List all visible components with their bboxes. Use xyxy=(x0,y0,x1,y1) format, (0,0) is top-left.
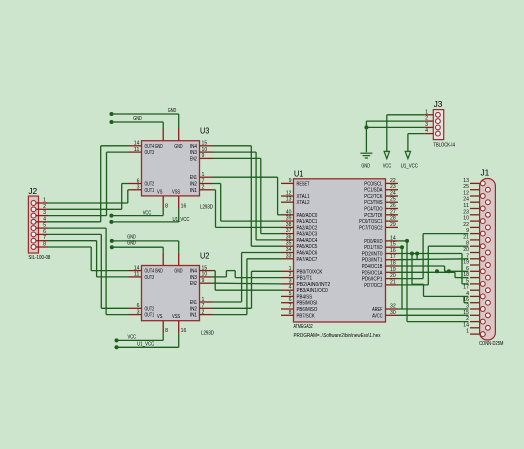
svg-text:OUT2: OUT2 xyxy=(145,306,155,312)
svg-text:21: 21 xyxy=(463,234,469,240)
svg-text:3: 3 xyxy=(43,210,46,216)
svg-text:23: 23 xyxy=(390,184,396,190)
svg-text:GND: GND xyxy=(174,269,182,275)
svg-text:J2: J2 xyxy=(28,187,37,196)
svg-text:PB1/T1: PB1/T1 xyxy=(297,276,313,282)
svg-text:EN2: EN2 xyxy=(190,156,197,162)
svg-text:5: 5 xyxy=(43,223,46,229)
svg-text:OUT3: OUT3 xyxy=(145,150,155,156)
svg-text:8: 8 xyxy=(43,242,46,248)
svg-text:6: 6 xyxy=(137,303,140,309)
svg-text:11: 11 xyxy=(134,147,140,153)
svg-text:OUT4: OUT4 xyxy=(145,269,155,275)
svg-text:IN1: IN1 xyxy=(190,313,197,319)
svg-text:U2: U2 xyxy=(200,251,210,260)
svg-text:11: 11 xyxy=(134,272,140,278)
svg-text:ATMEGA32: ATMEGA32 xyxy=(294,324,313,330)
svg-text:PB7/SCK: PB7/SCK xyxy=(297,313,316,319)
svg-text:1: 1 xyxy=(43,198,46,204)
svg-text:VS: VS xyxy=(157,314,163,320)
svg-text:AVCC: AVCC xyxy=(372,313,383,319)
svg-text:39: 39 xyxy=(286,216,292,222)
svg-text:7: 7 xyxy=(202,178,205,184)
svg-text:15: 15 xyxy=(202,265,208,271)
svg-text:PA5/ADC5: PA5/ADC5 xyxy=(297,244,318,250)
svg-text:OUT1: OUT1 xyxy=(145,313,155,319)
svg-text:PC5/TDI: PC5/TDI xyxy=(364,213,382,219)
svg-text:PA4/ADC4: PA4/ADC4 xyxy=(297,238,318,244)
svg-text:VCC: VCC xyxy=(383,164,392,170)
svg-text:U1_VCC: U1_VCC xyxy=(137,342,154,348)
svg-text:4: 4 xyxy=(425,128,428,134)
svg-text:19: 19 xyxy=(463,260,469,266)
svg-text:1: 1 xyxy=(425,109,428,115)
svg-text:12: 12 xyxy=(286,191,292,197)
svg-text:PD6/ICP1: PD6/ICP1 xyxy=(362,277,383,283)
svg-text:6: 6 xyxy=(43,229,46,235)
svg-text:PC2/TCK: PC2/TCK xyxy=(364,194,383,200)
svg-text:9: 9 xyxy=(202,153,205,159)
svg-text:EN1: EN1 xyxy=(190,300,197,306)
svg-text:5: 5 xyxy=(289,291,292,297)
svg-text:PD3/INT1: PD3/INT1 xyxy=(362,258,383,264)
svg-text:13: 13 xyxy=(463,178,469,184)
svg-text:14: 14 xyxy=(134,141,140,147)
svg-text:VSS: VSS xyxy=(172,314,181,320)
svg-text:VSS: VSS xyxy=(172,189,181,195)
svg-text:3: 3 xyxy=(137,309,140,315)
svg-text:GND: GND xyxy=(168,108,177,114)
svg-text:EN1: EN1 xyxy=(190,175,197,181)
svg-text:IN3: IN3 xyxy=(190,275,197,281)
svg-text:10: 10 xyxy=(202,272,208,278)
svg-text:38: 38 xyxy=(286,222,292,228)
svg-text:OUT3: OUT3 xyxy=(145,275,155,281)
svg-text:1: 1 xyxy=(289,266,292,272)
svg-text:22: 22 xyxy=(463,222,469,228)
svg-text:16: 16 xyxy=(181,203,187,209)
svg-text:U1_VCC: U1_VCC xyxy=(172,217,189,223)
svg-text:9: 9 xyxy=(289,178,292,184)
svg-text:1: 1 xyxy=(202,297,205,303)
svg-text:15: 15 xyxy=(390,242,396,248)
svg-text:PA2/ADC2: PA2/ADC2 xyxy=(297,225,318,231)
svg-text:24: 24 xyxy=(390,191,396,197)
svg-text:PD4/OC1B: PD4/OC1B xyxy=(362,264,383,270)
svg-text:PA3/ADC3: PA3/ADC3 xyxy=(297,232,318,238)
svg-text:PD7/OC2: PD7/OC2 xyxy=(364,283,382,289)
svg-text:14: 14 xyxy=(134,265,140,271)
svg-text:IN1: IN1 xyxy=(190,188,197,194)
svg-text:J3: J3 xyxy=(434,100,443,109)
svg-text:3: 3 xyxy=(137,185,140,191)
svg-text:XTAL2: XTAL2 xyxy=(297,200,310,206)
svg-text:1: 1 xyxy=(466,329,469,335)
svg-text:4: 4 xyxy=(43,216,46,222)
svg-text:40: 40 xyxy=(286,209,292,215)
svg-text:PROGRAM=..\Software2\bin\newEs: PROGRAM=..\Software2\bin\newEss\1.hex xyxy=(294,333,381,339)
svg-text:PD0/RXD: PD0/RXD xyxy=(364,239,383,245)
svg-text:33: 33 xyxy=(286,253,292,259)
svg-text:PB6/MISO: PB6/MISO xyxy=(297,307,318,313)
svg-text:6: 6 xyxy=(137,178,140,184)
svg-text:PC4/TDO: PC4/TDO xyxy=(364,207,382,213)
svg-text:PC0/SCL: PC0/SCL xyxy=(364,181,382,187)
svg-text:PA0/ADC0: PA0/ADC0 xyxy=(297,213,318,219)
svg-text:2: 2 xyxy=(43,204,46,210)
svg-text:IN3: IN3 xyxy=(190,150,197,156)
svg-text:2: 2 xyxy=(425,116,428,122)
svg-text:PA7/ADC7: PA7/ADC7 xyxy=(297,257,318,263)
svg-text:3: 3 xyxy=(425,122,428,128)
svg-text:17: 17 xyxy=(390,254,396,260)
svg-text:PC3/TMS: PC3/TMS xyxy=(364,200,383,206)
svg-text:PB5/MOSI: PB5/MOSI xyxy=(297,301,318,307)
svg-text:30: 30 xyxy=(390,310,396,316)
svg-text:IN4: IN4 xyxy=(190,269,197,275)
svg-text:GND: GND xyxy=(155,144,163,150)
svg-text:20: 20 xyxy=(390,273,396,279)
svg-text:OUT2: OUT2 xyxy=(145,182,155,188)
svg-text:VS: VS xyxy=(157,189,163,195)
svg-text:7: 7 xyxy=(43,235,46,241)
svg-text:PC7/TOSC2: PC7/TOSC2 xyxy=(359,225,383,231)
svg-text:4: 4 xyxy=(289,285,292,291)
svg-text:2: 2 xyxy=(202,185,205,191)
svg-text:28: 28 xyxy=(390,216,396,222)
svg-text:11: 11 xyxy=(463,203,469,209)
svg-text:PC6/TOSC1: PC6/TOSC1 xyxy=(359,219,383,225)
svg-text:37: 37 xyxy=(286,228,292,234)
svg-text:L293D: L293D xyxy=(201,330,214,336)
svg-text:PA6/ADC6: PA6/ADC6 xyxy=(297,251,318,257)
svg-text:18: 18 xyxy=(390,261,396,267)
svg-text:14: 14 xyxy=(390,235,396,241)
svg-text:SIL-100-08: SIL-100-08 xyxy=(28,255,50,261)
svg-text:L293D: L293D xyxy=(200,205,213,211)
svg-text:IN4: IN4 xyxy=(190,144,197,150)
svg-text:GND: GND xyxy=(155,269,163,275)
svg-text:14: 14 xyxy=(463,322,469,328)
svg-text:TBLOCK-I4: TBLOCK-I4 xyxy=(433,143,455,149)
svg-text:AREF: AREF xyxy=(372,307,382,313)
svg-text:35: 35 xyxy=(286,241,292,247)
svg-text:25: 25 xyxy=(390,197,396,203)
svg-text:29: 29 xyxy=(390,222,396,228)
svg-text:16: 16 xyxy=(181,328,187,334)
svg-text:34: 34 xyxy=(286,247,292,253)
svg-text:36: 36 xyxy=(286,234,292,240)
svg-text:PB3/AIN1/OC0: PB3/AIN1/OC0 xyxy=(297,288,328,294)
svg-text:U1: U1 xyxy=(294,170,304,179)
svg-text:GND: GND xyxy=(361,164,370,170)
svg-text:2: 2 xyxy=(289,272,292,278)
svg-text:9: 9 xyxy=(202,278,205,284)
svg-text:IN2: IN2 xyxy=(190,182,197,188)
svg-text:PC1/SDA: PC1/SDA xyxy=(364,188,383,194)
svg-text:17: 17 xyxy=(463,285,469,291)
svg-text:PB4/SS: PB4/SS xyxy=(297,294,313,300)
svg-text:10: 10 xyxy=(463,216,469,222)
svg-text:PB0/T0/XCK: PB0/T0/XCK xyxy=(297,269,324,275)
svg-text:19: 19 xyxy=(390,267,396,273)
svg-text:12: 12 xyxy=(463,191,469,197)
svg-text:PD1/TXD: PD1/TXD xyxy=(364,245,383,251)
svg-text:8: 8 xyxy=(165,203,168,209)
svg-text:27: 27 xyxy=(390,209,396,215)
svg-text:VCC: VCC xyxy=(128,335,137,341)
svg-text:10: 10 xyxy=(202,147,208,153)
svg-text:6: 6 xyxy=(289,297,292,303)
svg-text:24: 24 xyxy=(463,197,469,203)
svg-text:GND: GND xyxy=(127,241,136,247)
svg-text:VCC: VCC xyxy=(143,211,152,217)
svg-text:PA1/ADC1: PA1/ADC1 xyxy=(297,219,318,225)
svg-text:26: 26 xyxy=(390,203,396,209)
svg-text:OUT4: OUT4 xyxy=(145,144,155,150)
svg-text:32: 32 xyxy=(390,304,396,310)
svg-text:XTAL1: XTAL1 xyxy=(297,194,310,200)
svg-text:16: 16 xyxy=(390,248,396,254)
svg-text:RESET: RESET xyxy=(297,181,310,187)
svg-text:GND: GND xyxy=(174,144,182,150)
svg-text:2: 2 xyxy=(202,309,205,315)
svg-text:25: 25 xyxy=(463,184,469,190)
svg-text:PD5/OC1A: PD5/OC1A xyxy=(362,270,383,276)
svg-text:PD2/INT0: PD2/INT0 xyxy=(362,252,383,258)
svg-text:EN2: EN2 xyxy=(190,281,197,287)
svg-text:22: 22 xyxy=(390,178,396,184)
svg-text:PB2/AIN0/INT2: PB2/AIN0/INT2 xyxy=(297,282,331,288)
svg-text:GND: GND xyxy=(127,234,136,240)
svg-text:U3: U3 xyxy=(200,127,210,136)
svg-text:21: 21 xyxy=(390,279,396,285)
svg-text:8: 8 xyxy=(165,328,168,334)
svg-text:13: 13 xyxy=(286,197,292,203)
svg-text:J1: J1 xyxy=(481,169,490,178)
svg-text:1: 1 xyxy=(202,172,205,178)
svg-text:CONN-D25M: CONN-D25M xyxy=(479,341,504,347)
svg-text:15: 15 xyxy=(202,141,208,147)
svg-text:3: 3 xyxy=(289,278,292,284)
svg-text:IN2: IN2 xyxy=(190,306,197,312)
svg-text:23: 23 xyxy=(463,209,469,215)
svg-text:8: 8 xyxy=(289,310,292,316)
svg-text:7: 7 xyxy=(202,303,205,309)
svg-text:7: 7 xyxy=(289,304,292,310)
svg-text:20: 20 xyxy=(463,247,469,253)
svg-text:U1_VCC: U1_VCC xyxy=(401,164,418,170)
svg-text:GND: GND xyxy=(133,116,142,122)
svg-text:OUT1: OUT1 xyxy=(145,188,155,194)
